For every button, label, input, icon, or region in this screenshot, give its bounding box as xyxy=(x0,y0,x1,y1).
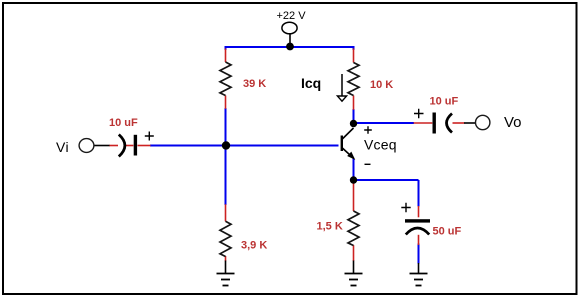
svg-text:Vceq: Vceq xyxy=(364,137,397,153)
svg-text:Icq: Icq xyxy=(301,75,321,91)
svg-text:3,9 K: 3,9 K xyxy=(241,240,267,252)
svg-text:+22 V: +22 V xyxy=(277,10,307,22)
svg-text:Vo: Vo xyxy=(504,114,522,131)
svg-text:50 uF: 50 uF xyxy=(433,226,462,238)
svg-text:39 K: 39 K xyxy=(243,78,266,90)
svg-text:10 K: 10 K xyxy=(370,79,393,91)
svg-text:10 uF: 10 uF xyxy=(430,96,459,108)
svg-text:Vi: Vi xyxy=(56,139,69,155)
svg-text:10 uF: 10 uF xyxy=(109,117,138,129)
svg-text:1,5 K: 1,5 K xyxy=(317,221,343,233)
